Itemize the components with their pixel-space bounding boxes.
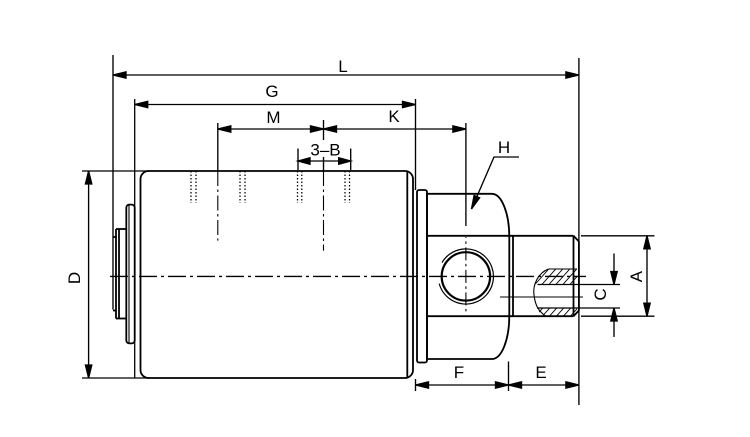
wire F-E shared extension — [508, 362, 510, 392]
body cylinder outline — [141, 171, 414, 378]
dimension A — [644, 236, 650, 316]
dimension C — [611, 254, 617, 338]
cap step small — [113, 237, 116, 311]
hatching upper band — [530, 262, 597, 290]
svg-text:F: F — [454, 363, 464, 382]
svg-text:M: M — [266, 108, 280, 127]
stud end face — [578, 242, 580, 311]
centerline main axis — [110, 275, 586, 277]
svg-text:L: L — [338, 57, 347, 76]
hex section outline — [427, 194, 509, 359]
wire right extension line — [578, 58, 580, 405]
wire K right extension — [465, 123, 467, 226]
wire A bottom extension — [581, 315, 655, 317]
wire G right extension / collar face — [415, 99, 417, 190]
wire C bottom extension — [537, 307, 620, 309]
dimension D — [85, 171, 91, 378]
hidden slot lines pair 4 — [345, 171, 350, 203]
hex flat boundary bottom / stud bottom edge — [427, 315, 574, 317]
stud groove line — [512, 236, 514, 316]
section top boundary — [549, 268, 578, 270]
dimension L — [113, 72, 579, 78]
wire F left extension — [415, 379, 417, 391]
hex flat boundary top / stud top edge — [427, 235, 574, 237]
centerline hole M — [217, 171, 219, 241]
dimension M — [218, 126, 324, 132]
dimension E — [509, 382, 579, 388]
cap disc — [126, 205, 134, 344]
body right interface line — [406, 171, 408, 378]
wire L left extension / cap left face — [112, 55, 114, 310]
wire center extension through M-K junction — [323, 120, 325, 140]
body left interface line / G extension — [134, 99, 136, 378]
hatching lower band — [532, 292, 599, 320]
port hole inner circle — [442, 252, 490, 300]
wire C top extension — [538, 284, 621, 286]
svg-text:3–B: 3–B — [310, 141, 340, 160]
svg-text:G: G — [265, 82, 278, 101]
leader H — [472, 157, 520, 209]
svg-text:A: A — [627, 270, 646, 282]
port thread outer arc — [439, 249, 493, 304]
collar flange — [417, 190, 427, 363]
cap step mid — [116, 229, 126, 319]
stud end chamfer edge — [573, 236, 575, 316]
dimension 3-B — [298, 149, 351, 171]
centerline hole 3-B — [323, 171, 325, 251]
hole mid line — [500, 296, 583, 298]
dimension G — [135, 101, 416, 107]
stud bottom chamfer — [574, 311, 579, 317]
svg-text:C: C — [591, 288, 610, 300]
centerline port vertical — [465, 237, 467, 312]
hidden slot lines pair 3 — [298, 171, 302, 203]
break-out boundary arc — [534, 269, 549, 316]
dimension F — [416, 382, 509, 388]
wire M left extension — [217, 123, 219, 171]
dimension K — [324, 126, 466, 132]
hidden slot lines pair 2 — [240, 171, 245, 203]
wire A top extension — [581, 235, 655, 237]
svg-text:K: K — [388, 107, 400, 126]
hidden slot lines pair 1 — [191, 171, 196, 203]
stud top chamfer — [574, 236, 579, 242]
svg-text:E: E — [535, 363, 546, 382]
wire D bottom extension — [82, 377, 150, 379]
svg-text:H: H — [498, 138, 510, 157]
svg-text:D: D — [65, 272, 84, 284]
wire D top extension — [82, 170, 150, 172]
